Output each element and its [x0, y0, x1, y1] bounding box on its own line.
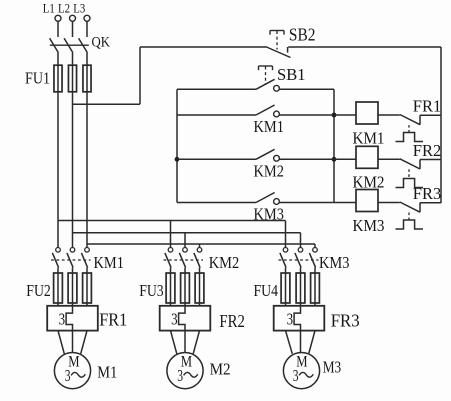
- svg-text:FR3: FR3: [413, 184, 442, 203]
- svg-text:M3: M3: [323, 357, 342, 376]
- svg-text:FU1: FU1: [25, 69, 50, 88]
- svg-text:SB2: SB2: [289, 24, 316, 44]
- svg-text:QK: QK: [92, 35, 111, 51]
- svg-text:FU3: FU3: [139, 281, 164, 300]
- svg-text:KM2: KM2: [254, 161, 285, 180]
- svg-text:L3: L3: [73, 1, 85, 16]
- svg-text:KM2: KM2: [209, 253, 240, 272]
- svg-text:KM1: KM1: [254, 117, 285, 136]
- svg-text:FR2: FR2: [413, 141, 442, 160]
- svg-text:3: 3: [293, 366, 299, 385]
- svg-text:FU4: FU4: [254, 281, 279, 300]
- svg-text:3: 3: [171, 309, 178, 328]
- svg-text:FU2: FU2: [26, 281, 51, 300]
- svg-text:M1: M1: [97, 363, 117, 382]
- svg-text:KM1: KM1: [94, 253, 125, 272]
- svg-text:FR2: FR2: [219, 311, 245, 331]
- svg-text:FR1: FR1: [413, 97, 442, 116]
- svg-text:3: 3: [287, 309, 294, 328]
- svg-text:3: 3: [65, 366, 71, 385]
- svg-text:KM1: KM1: [353, 128, 385, 147]
- svg-text:L2: L2: [58, 1, 70, 16]
- svg-text:3: 3: [59, 309, 66, 328]
- svg-text:M2: M2: [210, 359, 231, 378]
- svg-text:KM3: KM3: [319, 253, 350, 272]
- svg-text:FR1: FR1: [99, 310, 127, 330]
- svg-text:L1: L1: [43, 1, 55, 16]
- svg-text:3: 3: [177, 366, 183, 385]
- svg-text:KM3: KM3: [353, 216, 385, 235]
- svg-text:FR3: FR3: [331, 311, 360, 331]
- svg-text:SB1: SB1: [277, 65, 306, 84]
